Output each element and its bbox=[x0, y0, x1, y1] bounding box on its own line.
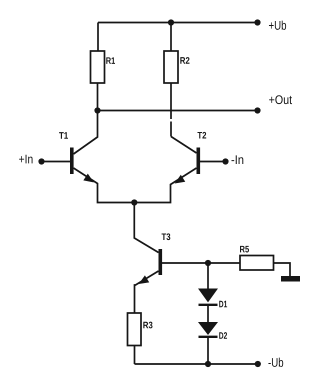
wire T3 base bbox=[162, 262, 208, 264]
wire left drop to R1 bbox=[97, 23, 99, 52]
wire +Out rail bbox=[98, 110, 257, 112]
wire T1 base bbox=[42, 161, 70, 163]
label -Ub bbox=[268, 358, 283, 367]
label T3 bbox=[162, 233, 171, 240]
wire node to R5 bbox=[208, 262, 240, 264]
transistor T3 base bar bbox=[159, 249, 163, 275]
wire R5 to ground bbox=[274, 263, 291, 276]
wire node to D1 bbox=[207, 263, 209, 289]
node -Ub junction bbox=[205, 361, 211, 367]
wire T2 collector diagonal bbox=[171, 137, 197, 154]
label R2 bbox=[180, 57, 189, 64]
transistor T1 emitter arrow bbox=[84, 174, 93, 182]
label T2 bbox=[197, 132, 206, 139]
node -Ub terminal bbox=[255, 361, 261, 367]
node +In terminal bbox=[38, 158, 44, 164]
diode D1 bbox=[199, 289, 218, 305]
wire R1 bottom to +Out node bbox=[97, 83, 99, 111]
transistor T1 base bar bbox=[70, 148, 74, 175]
wire R3 bottom bbox=[134, 346, 136, 365]
diode D2 bbox=[199, 323, 218, 337]
node tail junction bbox=[131, 199, 137, 205]
wire T2 base bbox=[200, 161, 225, 163]
wire R2 top drop bbox=[170, 23, 172, 52]
wire +Ub rail bbox=[98, 22, 257, 24]
resistor R3 bbox=[128, 313, 142, 346]
label +Ub bbox=[269, 21, 286, 30]
wire T3 emitter bbox=[135, 271, 159, 313]
label R5 bbox=[240, 246, 249, 253]
wire tail node to T3 collector bbox=[134, 203, 158, 253]
node +Out terminal bbox=[254, 107, 260, 113]
wire T2 emitter bbox=[135, 168, 197, 203]
resistor R2 bbox=[164, 51, 178, 83]
label R1 bbox=[106, 57, 115, 64]
node +Out junction bbox=[94, 107, 100, 113]
label +In bbox=[19, 155, 32, 164]
wire T1 emitter bbox=[74, 168, 136, 203]
label R3 bbox=[143, 322, 152, 329]
transistor T2 emitter arrow bbox=[176, 176, 185, 184]
wire D2 to -Ub rail bbox=[207, 337, 209, 365]
node T3 base junction bbox=[205, 260, 211, 266]
wire R2 bottom segment bbox=[170, 83, 172, 119]
resistor R5 bbox=[240, 256, 274, 271]
wire T1 collector bbox=[74, 111, 98, 155]
wire D1 to D2 bbox=[207, 304, 209, 323]
label D1 bbox=[219, 301, 227, 308]
node +Ub junction bbox=[168, 19, 174, 25]
ground bbox=[281, 276, 300, 282]
resistor R1 bbox=[91, 51, 105, 83]
node -In terminal bbox=[222, 158, 228, 164]
node +Ub terminal bbox=[254, 19, 260, 25]
label T1 bbox=[59, 132, 68, 139]
wire T2 collector vertical bbox=[170, 122, 172, 137]
wire -Ub rail bbox=[135, 363, 258, 365]
label +Out bbox=[269, 95, 292, 104]
label -In bbox=[231, 155, 243, 164]
label D2 bbox=[219, 332, 227, 339]
transistor T3 emitter arrow bbox=[140, 276, 149, 283]
transistor T2 base bar bbox=[197, 148, 201, 175]
